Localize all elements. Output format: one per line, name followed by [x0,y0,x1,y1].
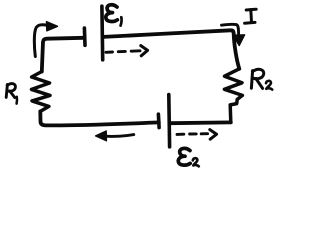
current arrow top-left (up then right) [34,22,57,57]
wire: top-left segment and left lead down to R1 [42,38,84,72]
resistor R2 zigzag with lead to bottom-right corner [224,69,242,123]
resistor R1 zigzag [32,72,51,112]
EMF E1 dashed direction arrow (right) [106,46,148,56]
battery E2 short plate [157,114,161,127]
EMF E2 dashed direction arrow (right) [177,130,217,140]
battery E1 long plate [100,6,104,60]
battery E1 short plate [83,28,87,45]
wire: top-right segment and right lead down to R2 [103,30,239,69]
wire: bottom-right segment [170,121,230,126]
label E1 [106,5,122,26]
label E2 [178,148,198,166]
wire: bottom-left segment and lead up to R1 [40,111,159,125]
battery E2 long plate [167,95,171,147]
label I [245,9,257,23]
label R1 [6,84,17,104]
current arrow I (down) at top-right [222,24,245,45]
label R2 [251,69,272,89]
current arrow bottom (left) [96,131,134,141]
